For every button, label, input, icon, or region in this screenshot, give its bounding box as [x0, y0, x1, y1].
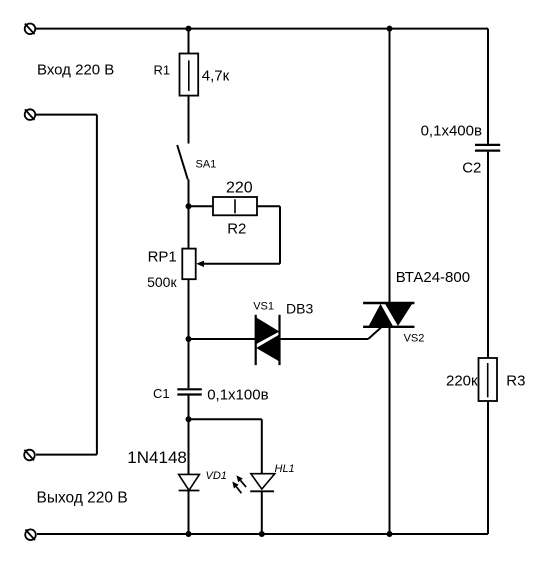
- svg-text:220: 220: [226, 180, 253, 197]
- svg-text:4,7к: 4,7к: [202, 67, 230, 84]
- svg-text:R2: R2: [227, 221, 246, 238]
- svg-text:VD1: VD1: [206, 470, 227, 482]
- svg-text:ВТА24-800: ВТА24-800: [396, 269, 470, 286]
- svg-text:DB3: DB3: [286, 301, 313, 317]
- svg-text:C1: C1: [153, 386, 170, 401]
- svg-text:0,1х100в: 0,1х100в: [207, 386, 268, 403]
- svg-text:R3: R3: [506, 372, 525, 389]
- svg-text:RP1: RP1: [148, 249, 177, 266]
- svg-text:HL1: HL1: [275, 463, 295, 475]
- svg-text:1N4148: 1N4148: [127, 448, 187, 467]
- svg-text:C2: C2: [462, 160, 481, 177]
- svg-text:Выход 220 В: Выход 220 В: [37, 489, 128, 506]
- svg-text:SA1: SA1: [196, 159, 217, 171]
- svg-text:500к: 500к: [147, 274, 177, 290]
- svg-text:R1: R1: [154, 62, 171, 77]
- svg-text:VS1: VS1: [253, 301, 274, 313]
- svg-text:220к: 220к: [446, 372, 478, 389]
- svg-text:VS2: VS2: [404, 333, 425, 345]
- svg-text:Вход 220 В: Вход 220 В: [37, 62, 114, 79]
- svg-text:0,1х400в: 0,1х400в: [421, 122, 482, 139]
